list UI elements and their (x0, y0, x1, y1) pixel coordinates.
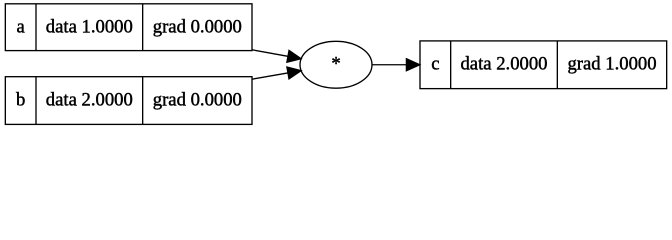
svg-text:data 2.0000: data 2.0000 (460, 54, 547, 75)
node c cell divider 1 (450, 41, 452, 89)
node b (record box) (5, 77, 252, 125)
node a (record box) (5, 4, 252, 51)
arrowhead b to * (287, 67, 301, 79)
svg-text:data 2.0000: data 2.0000 (46, 89, 133, 110)
op node * (ellipse) (300, 41, 372, 88)
wire b to * (252, 73, 288, 79)
wire a to * (252, 50, 288, 57)
wire * to c (372, 64, 406, 66)
node c cell divider 2 (556, 41, 558, 89)
node a cell divider 1 (35, 4, 37, 51)
svg-text:*: * (331, 54, 340, 75)
svg-text:c: c (431, 54, 439, 75)
node b cell divider 2 (142, 77, 144, 125)
svg-text:a: a (17, 17, 26, 38)
node c (record box) (420, 41, 667, 89)
svg-text:grad 0.0000: grad 0.0000 (153, 17, 242, 38)
arrowhead * to c (406, 59, 419, 71)
svg-text:grad 0.0000: grad 0.0000 (153, 89, 242, 110)
arrowhead a to * (287, 50, 301, 62)
node b cell divider 1 (35, 77, 37, 125)
svg-text:data 1.0000: data 1.0000 (46, 17, 133, 38)
svg-text:b: b (16, 89, 25, 110)
node a cell divider 2 (142, 4, 144, 51)
svg-text:grad 1.0000: grad 1.0000 (567, 54, 656, 75)
